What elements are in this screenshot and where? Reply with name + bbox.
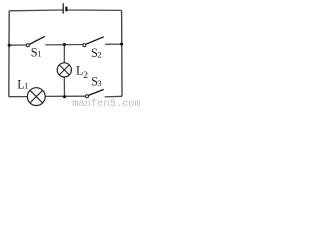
switch S1 pivot — [26, 44, 29, 47]
svg-text:3: 3 — [97, 78, 101, 88]
wire switch S2 to middle right — [105, 43, 121, 45]
wire switch S3 to bottom-right — [105, 95, 122, 98]
svg-text:2: 2 — [83, 71, 88, 81]
switch S3 pivot — [86, 95, 89, 98]
battery long plate — [62, 3, 64, 14]
wire bottom-left to lamp L1 — [9, 96, 28, 98]
wire left vertical — [8, 11, 10, 97]
wire branch middle-wire to lamp L2 — [63, 45, 65, 63]
junction node left-middle — [8, 44, 11, 47]
switch S2 blade — [86, 37, 104, 45]
lamp L2 cross — [59, 65, 69, 75]
junction node right-middle — [120, 43, 123, 46]
junction node branch-bottom — [63, 95, 66, 98]
wire middle left to switch S1 — [9, 44, 26, 46]
wire lamp L1 to switch S3 — [45, 95, 85, 97]
lamp L1 cross — [30, 90, 43, 103]
wire switch S1 to switch S2 — [45, 44, 83, 46]
wire battery to top-right — [67, 9, 121, 11]
svg-text:1: 1 — [24, 81, 28, 91]
svg-text:manfen5.com: manfen5.com — [72, 98, 141, 107]
wire right vertical — [121, 10, 123, 96]
lamp L2 circle — [57, 63, 71, 77]
svg-text:2: 2 — [97, 49, 101, 59]
switch S2 pivot — [83, 44, 86, 47]
wire top-left to battery — [9, 9, 63, 12]
battery short thick plate — [65, 7, 67, 12]
switch S3 blade — [88, 89, 103, 95]
junction node branch-top — [63, 43, 66, 46]
switch S1 blade — [29, 36, 45, 44]
wire lamp L2 to bottom wire — [63, 77, 65, 97]
lamp L1 circle — [27, 88, 45, 106]
svg-text:1: 1 — [37, 49, 41, 59]
